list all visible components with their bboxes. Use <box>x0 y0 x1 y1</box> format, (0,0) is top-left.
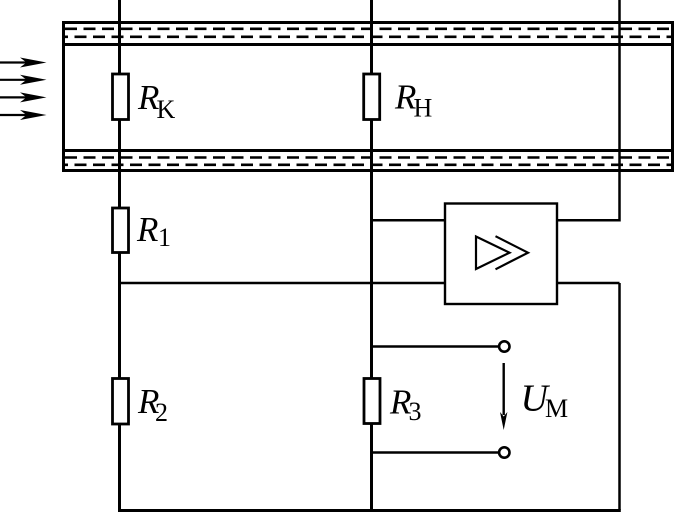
svg-text:2: 2 <box>155 398 168 427</box>
chamber bottom wall hatching dash row 1 <box>65 156 671 159</box>
chamber right wall <box>671 21 674 172</box>
resistor R1 <box>113 208 129 253</box>
chamber top wall hatching dash row 2 <box>65 35 671 38</box>
svg-text:K: K <box>157 95 176 124</box>
terminal lower (output) <box>499 447 509 457</box>
arrow UM (voltage arrow) <box>500 363 507 430</box>
amplifier symbol (triangle) <box>476 237 510 270</box>
chamber left wall <box>62 21 65 172</box>
chamber bottom wall (inner line) <box>62 149 674 152</box>
flow arrow 2 <box>0 75 47 85</box>
wire right branch top (x=619.5, supply top to amplifier output level) <box>618 0 621 222</box>
wire amplifier output top (amp right edge to right branch) <box>557 219 620 222</box>
terminal upper (output) <box>499 341 509 351</box>
amplifier symbol (chevron) <box>496 236 529 269</box>
wire to upper output terminal <box>372 345 499 348</box>
chamber top wall (outer line) <box>62 21 674 24</box>
chamber top wall hatching dash row 1 <box>65 27 671 30</box>
wire amplifier output bottom (amp right edge to right branch) <box>557 282 620 285</box>
chamber bottom wall (outer line) <box>62 169 674 172</box>
svg-text:H: H <box>414 94 433 123</box>
wire amplifier input top (from middle branch to amp left edge) <box>372 219 446 222</box>
resistor RK <box>113 74 129 120</box>
svg-text:R: R <box>136 210 158 249</box>
resistor R2 <box>113 379 129 425</box>
wire amplifier input bottom (from left branch to amp left edge) <box>120 282 446 285</box>
wire to lower output terminal <box>372 451 499 454</box>
svg-text:M: M <box>545 394 568 423</box>
resistor RH <box>364 74 380 120</box>
flow arrow 3 <box>0 92 47 102</box>
chamber bottom wall hatching dash row 2 <box>65 164 671 167</box>
flow arrow 4 <box>0 110 47 120</box>
resistor R3 <box>364 379 380 424</box>
wire bottom bus <box>118 509 621 512</box>
wire left branch (x=119.5, supply top to bottom bus) <box>118 0 121 510</box>
svg-text:3: 3 <box>409 397 422 426</box>
flow arrow 1 <box>0 58 47 68</box>
svg-text:1: 1 <box>158 223 171 252</box>
amplifier U1 (box) <box>445 204 557 305</box>
wire middle branch (x=371.5, supply top to bottom bus) <box>370 0 373 510</box>
wire right branch bottom (x=619.5 down to bottom bus) <box>618 283 621 510</box>
chamber top wall (inner line) <box>62 43 674 46</box>
